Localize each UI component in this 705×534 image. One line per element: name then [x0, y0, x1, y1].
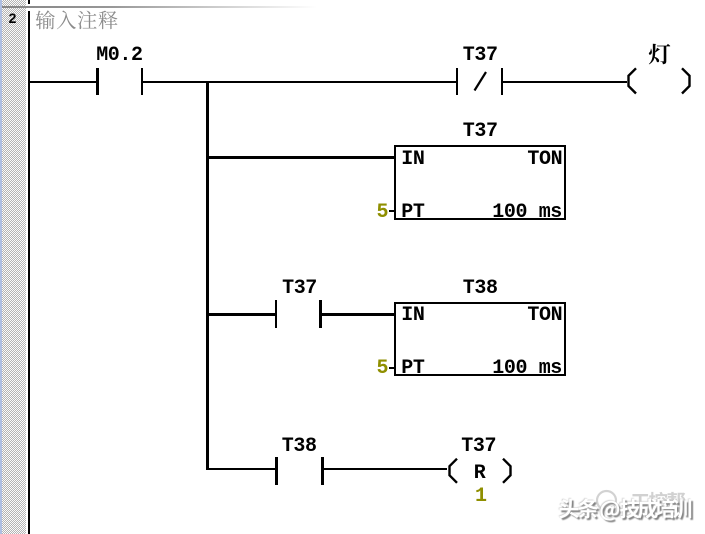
label M0.2: [96, 46, 142, 66]
timer box T37 TON: [394, 145, 566, 220]
pin TON (T38): [527, 306, 562, 326]
network number 2: [9, 11, 17, 25]
value 100 ms (T38 time base): [492, 359, 562, 379]
contact T37 normally-closed: [456, 68, 459, 95]
wire M0.2 to T37: [143, 81, 456, 84]
network comment 输入注释: [0, 0, 705, 40]
power rail remnant (previous network): [28, 0, 30, 4]
contact T37 (rung 3): [275, 300, 278, 328]
coil 灯 (output): [625, 66, 695, 96]
pin IN (T37): [401, 150, 424, 170]
value 1 (reset count): [475, 487, 487, 507]
branch wire vertical: [206, 81, 209, 471]
gutter hatch: [2, 0, 26, 534]
label T37 (timer title): [463, 122, 498, 142]
value 100 ms (T37 time base): [492, 203, 562, 223]
wire T37 contact to T38 timer: [322, 313, 396, 316]
wire branch to T37 contact: [206, 313, 276, 316]
label T38 (timer title): [463, 279, 498, 299]
label T37 (contact rung 1): [463, 46, 498, 66]
label T37 (contact rung 3): [282, 279, 317, 299]
timer box T38 TON: [394, 302, 566, 377]
pin PT (T37): [401, 203, 424, 223]
wire rail to M0.2: [29, 81, 96, 84]
network divider line: [2, 6, 317, 8]
coil T37 reset (R): [446, 457, 516, 485]
contact M0.2: [96, 68, 99, 95]
wire branch to T37 timer IN: [206, 156, 396, 159]
wire branch corner to T38 contact: [206, 468, 277, 471]
PT lead tick (T38): [389, 367, 395, 369]
value 5 (T38 PT preset): [377, 359, 389, 379]
label T38 (contact rung 4): [282, 437, 317, 457]
pin PT (T38): [401, 359, 424, 379]
label T37 (reset coil operand): [461, 437, 496, 457]
power rail: [28, 11, 30, 534]
label R (reset coil): [474, 464, 486, 484]
contact T38 (rung 4): [275, 457, 278, 485]
pin TON (T37): [527, 150, 562, 170]
value 5 (T37 PT preset): [377, 203, 389, 223]
label 灯 (coil operand): [0, 0, 705, 70]
PT lead tick (T37): [389, 210, 395, 212]
left margin strip: [0, 0, 2, 534]
wire T37 to coil: [503, 81, 627, 84]
pin IN (T38): [401, 306, 424, 326]
wire T38 contact to reset coil: [324, 468, 448, 471]
